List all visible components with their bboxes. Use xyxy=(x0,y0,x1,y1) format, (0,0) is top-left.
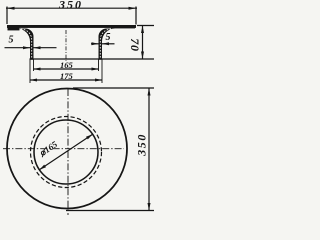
svg-text:165: 165 xyxy=(60,60,74,70)
svg-text:5: 5 xyxy=(106,32,111,43)
svg-text:5: 5 xyxy=(9,35,14,46)
svg-text:175: 175 xyxy=(60,71,74,81)
svg-text:350: 350 xyxy=(134,133,148,157)
svg-text:70: 70 xyxy=(128,38,142,52)
svg-text:350: 350 xyxy=(58,0,83,11)
